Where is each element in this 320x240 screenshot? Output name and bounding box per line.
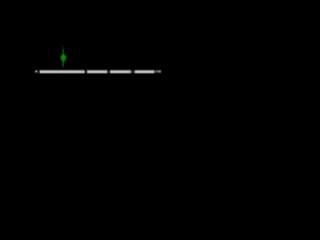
- dim continuation of segment 3: [131, 70, 132, 73]
- price line segment 4: [134, 70, 155, 74]
- left tick fragment B (bright): [36, 70, 38, 72]
- fade-in at segment 3 start: [109, 69, 111, 74]
- right tick fragment A: [155, 71, 156, 73]
- price line segment 2: [86, 70, 107, 74]
- price line segment 3: [109, 70, 131, 74]
- price line segment 1: [39, 70, 85, 74]
- faint glow below dim zone: [131, 73, 133, 74]
- left tick fragment A (dim): [34, 71, 35, 73]
- candle body (kite): [60, 54, 66, 63]
- right tick fragment B: [157, 70, 158, 72]
- candle wick: [63, 45, 64, 67]
- fade-in at segment 1 start: [39, 69, 41, 74]
- fade-in at segment 2 start: [86, 69, 88, 74]
- faint speck inside dim zone: [132, 71, 133, 73]
- fade-in at segment 4 start: [134, 69, 136, 74]
- right tick fragment C: [158, 70, 161, 72]
